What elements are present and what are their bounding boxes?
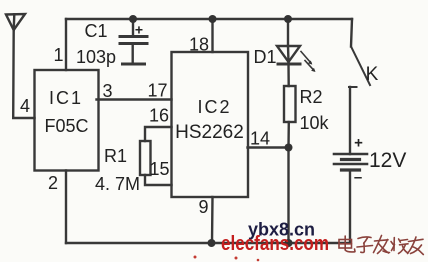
capacitor C1 <box>120 19 147 64</box>
wire node to bottom rail <box>287 148 289 244</box>
wire R2 bottom to node <box>287 122 290 148</box>
wire top rail to LED D1 <box>287 19 289 46</box>
node dot D1 branch/bottom rail <box>285 239 293 247</box>
node dot pin9/bottom rail <box>208 239 216 247</box>
svg-text:F05C: F05C <box>44 116 88 136</box>
wire IC2 pin18 to top rail <box>211 19 213 52</box>
node dot pin18/top rail <box>209 15 217 23</box>
svg-text:+: + <box>135 22 143 38</box>
svg-text:16: 16 <box>149 106 169 126</box>
svg-text:1: 1 <box>53 45 63 65</box>
svg-text:18: 18 <box>189 35 209 55</box>
svg-text:17: 17 <box>147 81 167 101</box>
svg-text:103p: 103p <box>76 47 116 67</box>
switch K <box>349 19 370 87</box>
svg-text:14: 14 <box>250 129 270 149</box>
svg-text:4. 7M: 4. 7M <box>95 174 140 194</box>
svg-text:10k: 10k <box>299 113 329 133</box>
red speck artifacts <box>194 256 260 262</box>
wire bottom rail <box>66 242 350 244</box>
svg-text:R1: R1 <box>104 146 127 166</box>
svg-text:C1: C1 <box>84 21 107 41</box>
svg-text:9: 9 <box>198 197 208 217</box>
svg-text:2: 2 <box>48 173 58 193</box>
wire IC1 pin3 to IC2 pin17 <box>97 98 172 100</box>
LED D1 <box>277 46 316 72</box>
wire IC1 pin2 to bottom rail <box>65 171 67 244</box>
resistor R2 body <box>284 86 296 122</box>
svg-text:IC1: IC1 <box>49 88 83 108</box>
svg-text:15: 15 <box>149 159 169 179</box>
resistor R1 body <box>140 141 151 175</box>
antenna <box>6 14 25 30</box>
wire R1 bottom to IC2 pin15 <box>145 175 172 185</box>
svg-text:IC2: IC2 <box>197 97 231 117</box>
svg-text:–: – <box>354 169 362 186</box>
svg-text:elecfans.com: elecfans.com <box>221 233 329 255</box>
svg-text:HS2262: HS2262 <box>175 122 244 143</box>
wire IC2 pin14 to node <box>248 146 289 148</box>
node dot D1/top rail <box>284 15 292 23</box>
node dot pin14/R2 <box>285 144 293 152</box>
wire IC2 pin9 to bottom rail <box>211 197 214 243</box>
svg-text:3: 3 <box>102 81 112 101</box>
wire IC2 pin16 to R1 top <box>145 127 172 141</box>
svg-text:R2: R2 <box>299 87 322 107</box>
IC2 U2 HS2262 box <box>172 52 249 197</box>
svg-text:+: + <box>354 135 363 152</box>
wire antenna stem <box>13 29 34 118</box>
wire D1 cathode to R2 <box>287 64 290 86</box>
wire battery to bottom rail <box>349 170 351 243</box>
wire top rail <box>66 18 352 20</box>
svg-text:12V: 12V <box>369 149 406 172</box>
svg-text:D1: D1 <box>253 47 276 67</box>
IC1 U1 F05C box <box>35 70 99 171</box>
node dot C1/top rail <box>129 15 137 23</box>
wire IC1 pin1 to top rail <box>65 19 67 70</box>
svg-text:K: K <box>366 64 379 85</box>
wire switch to battery <box>349 87 351 154</box>
battery BT1 12V <box>334 154 367 170</box>
svg-text:4: 4 <box>20 96 30 116</box>
watermark chinese characters <box>339 236 423 255</box>
